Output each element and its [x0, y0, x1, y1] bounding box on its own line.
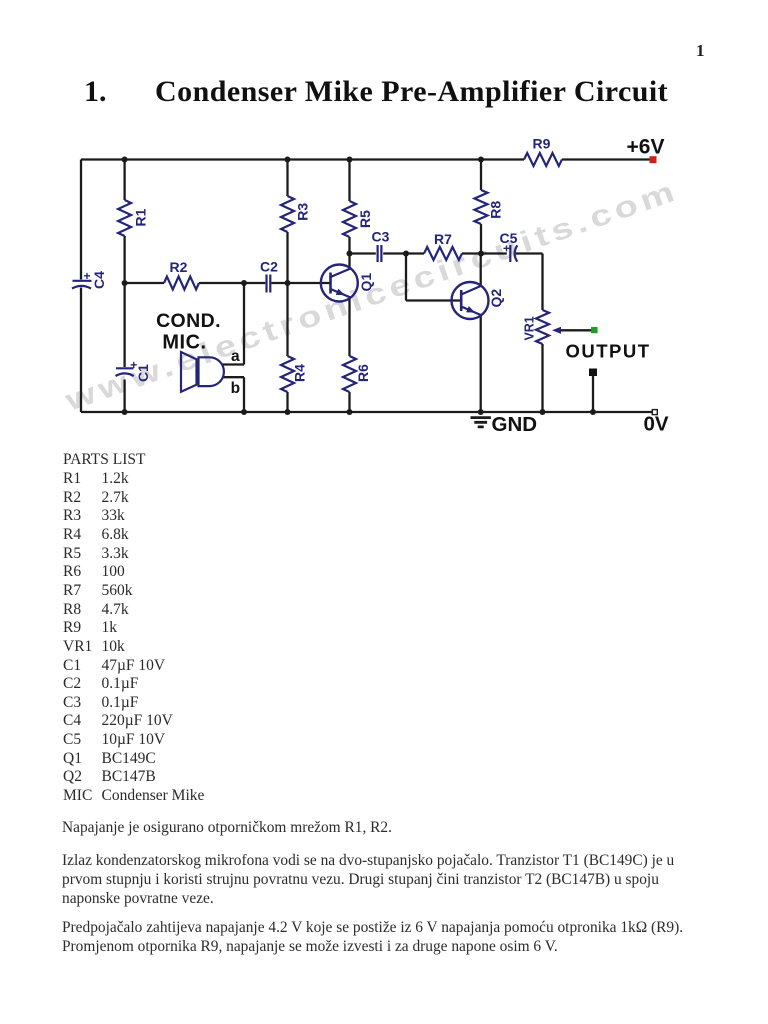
svg-text:VR1: VR1	[523, 316, 537, 340]
svg-text:C2: C2	[260, 259, 278, 275]
svg-text:R9: R9	[533, 136, 551, 152]
svg-text:Q1: Q1	[358, 273, 374, 292]
svg-text:+: +	[130, 358, 137, 372]
svg-text:GND: GND	[492, 413, 538, 436]
svg-text:R2: R2	[170, 259, 188, 275]
svg-text:+: +	[83, 269, 90, 283]
svg-text:COND.: COND.	[156, 310, 221, 332]
svg-text:R3: R3	[295, 203, 311, 221]
svg-text:MIC.: MIC.	[162, 332, 206, 354]
svg-text:a: a	[231, 348, 240, 365]
svg-text:R4: R4	[292, 364, 308, 382]
svg-text:OUTPUT: OUTPUT	[566, 341, 651, 362]
svg-text:C3: C3	[372, 229, 390, 245]
svg-text:R7: R7	[434, 231, 452, 247]
svg-text:C1: C1	[135, 364, 151, 382]
svg-text:b: b	[231, 380, 240, 397]
svg-text:C4: C4	[91, 271, 107, 289]
svg-text:Q2: Q2	[488, 289, 504, 308]
svg-text:+: +	[503, 242, 510, 256]
svg-text:+6V: +6V	[627, 136, 665, 159]
svg-text:R6: R6	[355, 364, 371, 382]
svg-text:R5: R5	[357, 210, 373, 228]
svg-text:0V: 0V	[644, 413, 669, 436]
svg-text:R8: R8	[487, 201, 503, 219]
svg-text:R1: R1	[133, 208, 149, 226]
